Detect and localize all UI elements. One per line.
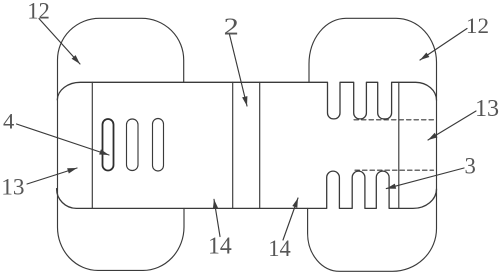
label 14 right <box>268 236 291 262</box>
svg-text:3: 3 <box>465 153 476 180</box>
label 3 <box>465 153 476 180</box>
arrowhead 2 <box>242 96 247 106</box>
label 12 left <box>27 0 50 23</box>
slot 1 <box>103 119 114 171</box>
leader 12 right <box>420 29 467 61</box>
svg-text:12: 12 <box>466 14 489 38</box>
arrowhead 12 right <box>420 53 429 61</box>
label 2 <box>224 12 239 39</box>
arrowhead 12 left <box>72 55 80 64</box>
leader 14 right <box>283 198 298 240</box>
arrowhead 14 right <box>292 198 298 208</box>
leader 4 <box>17 124 110 155</box>
slot 2 <box>127 119 139 171</box>
left pad outline <box>57 18 184 270</box>
right pad outline <box>308 18 437 271</box>
svg-text:14: 14 <box>208 233 232 259</box>
leader 12 left <box>39 19 80 64</box>
label 13 right <box>475 95 499 122</box>
label 13 left <box>1 174 24 200</box>
band bottom edge with teeth <box>57 171 437 208</box>
leader 2 <box>230 35 248 107</box>
center strip line a <box>232 82 234 208</box>
svg-text:13: 13 <box>1 174 24 200</box>
svg-text:4: 4 <box>3 108 14 133</box>
arrowhead 4 <box>99 149 109 155</box>
dashed line lower <box>355 169 434 171</box>
leader 3 <box>386 168 464 189</box>
slot 3 <box>153 119 164 172</box>
inner edge left <box>91 82 93 208</box>
center strip line b <box>259 82 261 208</box>
label 4 <box>3 108 14 133</box>
svg-text:2: 2 <box>224 12 239 39</box>
leader 14 left <box>214 199 220 236</box>
label 12 right <box>466 14 489 38</box>
inner edge right <box>398 82 400 208</box>
svg-text:13: 13 <box>475 95 499 122</box>
dashed line upper <box>354 119 434 121</box>
leader 13 left <box>27 168 77 184</box>
band top edge with comb slots <box>57 82 436 119</box>
arrowhead 13 right <box>428 133 438 140</box>
svg-text:14: 14 <box>268 236 291 262</box>
svg-text:12: 12 <box>27 0 50 23</box>
arrowhead 13 left <box>67 168 77 174</box>
arrowhead 3 <box>386 184 396 189</box>
arrowhead 14 left <box>213 199 218 209</box>
label 14 left <box>208 233 232 259</box>
leader 13 right <box>428 111 476 140</box>
